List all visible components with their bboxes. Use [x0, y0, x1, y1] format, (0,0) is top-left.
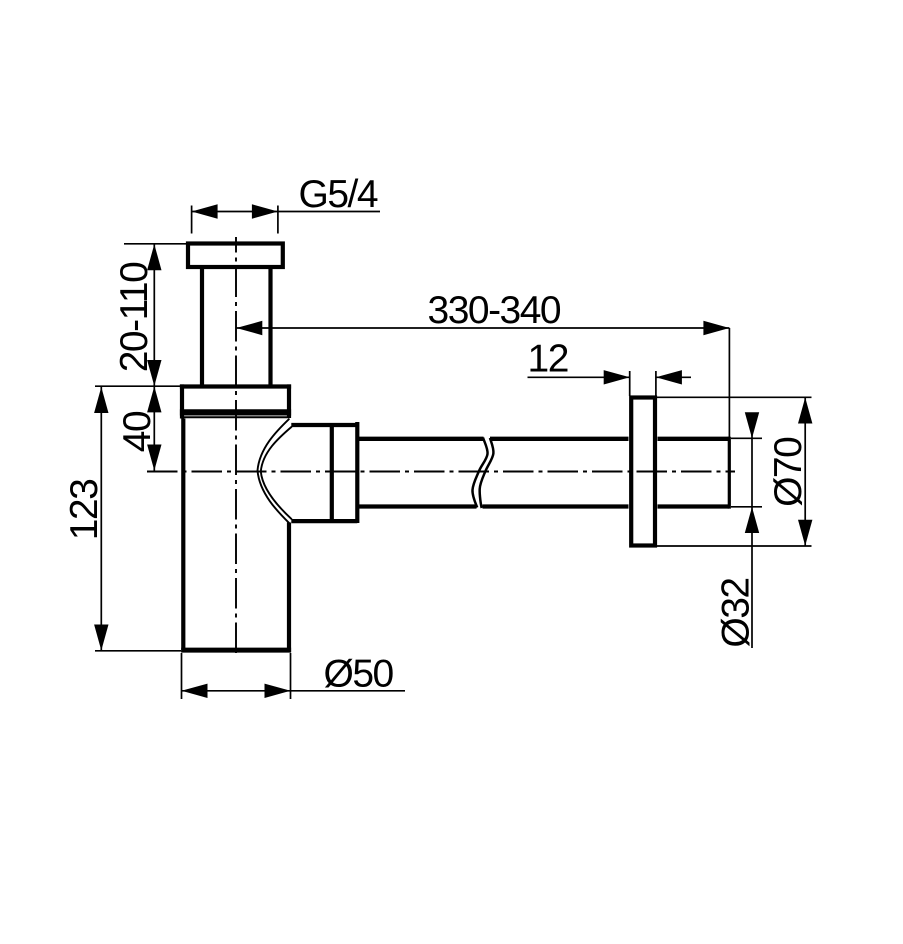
dim O50 right arrow	[265, 684, 291, 698]
dim 20-110 top arrow	[147, 244, 161, 270]
outlet pipe top edge (right of wall flange)	[658, 437, 730, 441]
dim 123 dimension line	[100, 387, 102, 651]
svg-text:12: 12	[528, 338, 568, 381]
dim 20-110 dimension line	[153, 244, 155, 386]
dim G5/4 right extension line	[277, 206, 279, 234]
outlet pipe end cap	[728, 437, 731, 509]
dim O70 top arrow	[798, 398, 812, 424]
body flange top edge	[180, 384, 291, 388]
body cup left edge	[181, 419, 185, 653]
outlet pipe bottom edge (left of break)	[357, 504, 476, 508]
dim O70 bottom extension line	[657, 545, 812, 547]
dim 40 top arrow	[147, 386, 161, 412]
outlet pipe top edge (left of break)	[357, 437, 483, 441]
dim 330-340 right arrow	[703, 321, 729, 335]
dim 20-110 top extension line	[124, 243, 186, 245]
body cup bottom edge	[181, 648, 291, 653]
svg-text:Ø70: Ø70	[767, 437, 810, 507]
dim G5/4 right arrow	[252, 204, 278, 218]
inlet riser pipe right edge	[268, 266, 272, 387]
dim O50 dimension line	[182, 690, 406, 692]
dim G5/4 left extension line	[191, 206, 193, 234]
dim 12 right arrow	[656, 370, 682, 384]
outlet pipe bottom edge (break to wall flange)	[483, 504, 629, 508]
vertical centerline of trap body	[235, 237, 237, 656]
dim O32 dimension line	[751, 413, 753, 648]
dim 330-340 left arrow	[236, 321, 262, 335]
union nut divider line	[330, 425, 334, 521]
dim 12 left arrow	[604, 370, 630, 384]
dim 330-340 right extension line	[728, 328, 730, 437]
dim 123 bottom arrow	[94, 625, 108, 651]
elbow inner curve	[261, 427, 292, 520]
outlet pipe top edge (break to wall flange)	[490, 437, 629, 441]
dim G5/4 left arrow	[192, 204, 218, 218]
dim 123 bottom extension line	[95, 650, 181, 652]
union nut right edge	[355, 422, 359, 523]
svg-text:Ø32: Ø32	[715, 578, 758, 647]
svg-text:123: 123	[63, 480, 106, 541]
dim 12 left dimension line	[528, 376, 630, 378]
dim 20-110 bottom arrow	[147, 360, 161, 386]
svg-text:Ø50: Ø50	[324, 653, 394, 696]
svg-text:20-110: 20-110	[113, 262, 156, 372]
dim O50 left arrow	[182, 684, 208, 698]
dim O32 top extension line	[731, 437, 762, 439]
body flange left edge	[180, 384, 184, 418]
elbow outer curve	[258, 419, 290, 523]
body cup right edge below elbow	[287, 523, 291, 653]
dim 40 dimension line	[153, 386, 155, 471]
dim G5/4 dimension line	[192, 211, 380, 213]
dim O32 bottom extension line	[731, 506, 762, 508]
union nut bottom edge	[291, 519, 357, 523]
dim 330-340 dimension line	[236, 327, 729, 329]
inlet riser pipe left edge	[200, 266, 204, 387]
top nut (inlet flange)	[188, 244, 283, 268]
dim O32 top arrow	[745, 412, 759, 438]
shared extension line at body flange top	[95, 385, 182, 387]
union nut top edge	[291, 423, 357, 427]
svg-text:40: 40	[116, 411, 159, 452]
dim O70 bottom arrow	[798, 520, 812, 546]
dim O70 top extension line	[657, 396, 812, 398]
dim 40 bottom arrow	[147, 445, 161, 471]
pipe break right S-curve	[480, 438, 494, 508]
dim 12 left extension line	[629, 371, 631, 396]
dim O50 right extension line	[290, 653, 292, 699]
svg-text:G5/4: G5/4	[299, 173, 378, 216]
dim O32 bottom arrow	[745, 507, 759, 533]
wall flange	[631, 398, 655, 546]
dim 123 top arrow	[94, 387, 108, 413]
dim 12 right dimension line	[656, 376, 691, 378]
svg-text:330-340: 330-340	[428, 289, 561, 332]
outlet pipe bottom edge (right of wall flange)	[658, 504, 730, 508]
gasket bar	[180, 409, 291, 415]
body flange right edge	[287, 384, 291, 418]
dim 12 right extension line	[655, 371, 657, 396]
dim O50 left extension line	[181, 653, 183, 699]
dim O70 dimension line	[804, 398, 806, 546]
horizontal centerline of outlet pipe	[147, 471, 735, 473]
pipe break left S-curve	[472, 438, 487, 508]
body flange bottom edge	[181, 416, 290, 418]
